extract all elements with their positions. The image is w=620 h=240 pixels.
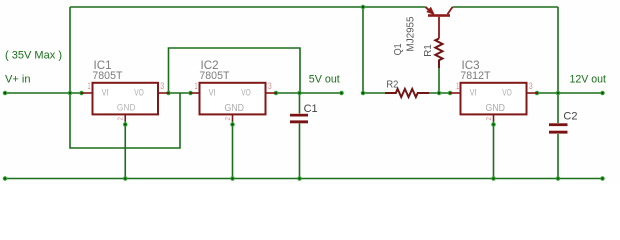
node top rail tap: [361, 5, 364, 8]
regulator IC2 7805T: [191, 59, 277, 121]
svg-text:VI: VI: [209, 87, 216, 97]
svg-text:( 35V Max ): ( 35V Max ): [5, 49, 62, 61]
wire IC1 GND drop: [124, 121, 126, 179]
node C1 junction: [298, 91, 301, 94]
node IC3 GND pin end: [492, 123, 495, 126]
svg-text:VO: VO: [134, 87, 144, 97]
capacitor C1: [290, 103, 318, 123]
svg-text:R2: R2: [386, 78, 398, 90]
svg-text:7812T: 7812T: [460, 70, 491, 82]
node ground rail C1: [298, 177, 301, 180]
wire C1 bottom lead: [299, 124, 301, 179]
node ground rail IC2: [231, 177, 234, 180]
node R1 bottom junction: [437, 91, 440, 94]
node IC2 GND pin end: [231, 123, 234, 126]
node V+ in terminal: [3, 91, 6, 94]
regulator IC3 7812T: [450, 59, 537, 121]
svg-text:Q1: Q1: [393, 43, 404, 55]
wire top rail right segment: [453, 6, 559, 8]
wire segment IC3 VO to 12V out terminal: [537, 92, 603, 94]
regulator IC1 7805T: [82, 59, 169, 121]
node ground rail left end: [3, 177, 6, 180]
wire riser V+ to top rail at x=70: [69, 7, 71, 93]
wire segment R2 to IC3 VI: [429, 92, 450, 94]
svg-text:3: 3: [268, 81, 272, 91]
node C2 top junction: [556, 91, 559, 94]
svg-text:C1: C1: [304, 103, 318, 115]
svg-text:GND: GND: [117, 103, 136, 114]
wire IC3 GND drop: [493, 121, 495, 179]
wire upper bridge over IC2: [169, 48, 301, 93]
svg-text:2: 2: [118, 117, 125, 121]
wire IC2 GND drop: [232, 121, 234, 179]
node 5V out terminal: [340, 91, 343, 94]
svg-text:1: 1: [195, 81, 198, 91]
svg-text:C2: C2: [563, 111, 577, 123]
svg-text:MJ2955: MJ2955: [405, 16, 416, 51]
wire R1 bottom lead: [438, 68, 440, 93]
node ground rail IC1: [124, 177, 127, 180]
wire C2 bottom lead: [557, 134, 559, 179]
node R2 left junction: [361, 91, 364, 94]
svg-text:V+ in: V+ in: [5, 73, 31, 85]
svg-text:7805T: 7805T: [199, 70, 230, 82]
node ground rail C2: [556, 177, 559, 180]
node IC1 VI pin end: [80, 91, 83, 94]
svg-text:3: 3: [529, 81, 533, 91]
wire segment IC2 VO to 5V out terminal: [276, 92, 342, 94]
svg-text:VO: VO: [502, 87, 512, 97]
wire C2 top lead: [557, 93, 559, 123]
node ground rail IC3: [492, 177, 495, 180]
svg-text:2: 2: [486, 117, 493, 121]
node IC1 VO pin end: [167, 91, 170, 94]
resistor R1: [423, 39, 443, 69]
capacitor C2: [549, 111, 577, 134]
node IC2 VI pin end: [189, 91, 192, 94]
svg-text:VO: VO: [241, 87, 251, 97]
node IC3 VO pin end: [535, 91, 538, 94]
wire main rail V+ in segment: [5, 92, 82, 94]
node junction x70 main rail: [68, 91, 71, 94]
svg-text:VI: VI: [102, 87, 109, 97]
svg-text:1: 1: [456, 81, 459, 91]
wire riser top right corner down to 12V line: [557, 7, 559, 93]
svg-text:7805T: 7805T: [92, 70, 123, 82]
resistor R2: [385, 78, 429, 97]
wire top rail left segment: [70, 6, 426, 8]
svg-text:GND: GND: [486, 103, 506, 114]
svg-text:R1: R1: [423, 44, 434, 57]
svg-text:2: 2: [225, 117, 232, 121]
wire lower U bypass: [70, 93, 180, 148]
wire segment node to R2: [363, 92, 385, 94]
svg-text:12V out: 12V out: [570, 73, 607, 85]
node ground rail right end: [601, 177, 604, 180]
svg-text:5V out: 5V out: [309, 73, 340, 85]
wire riser top rail tap at x=363: [362, 7, 364, 93]
node IC2 VO pin end: [274, 91, 277, 94]
svg-text:VI: VI: [470, 87, 477, 97]
svg-text:3: 3: [160, 81, 164, 91]
svg-text:1: 1: [88, 81, 91, 91]
node IC1 GND pin end: [124, 123, 127, 126]
svg-text:GND: GND: [225, 103, 245, 114]
wire C1 top lead: [299, 93, 301, 114]
transistor Q1 MJ2955: [393, 7, 453, 55]
node IC3 VI pin end: [448, 91, 451, 94]
node 12V out terminal: [601, 91, 604, 94]
wire bottom ground rail: [5, 178, 603, 180]
wire segment IC1 VO to IC2 VI: [169, 92, 191, 94]
